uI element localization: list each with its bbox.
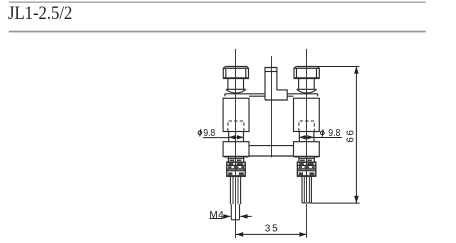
nut stack right — [295, 157, 319, 177]
title text JL1-2.5/2 — [8, 4, 72, 25]
body tube right (upper box) — [294, 98, 320, 131]
neck right — [299, 132, 314, 142]
clamp plate top — [225, 93, 318, 95]
body tube left (upper box) — [223, 98, 249, 131]
bolt B1 shank — [228, 79, 244, 89]
hidden hole left (dashed) — [228, 121, 244, 132]
svg-text:35: 35 — [265, 224, 280, 235]
svg-text:9.8: 9.8 — [328, 128, 340, 139]
rule under title — [9, 31, 426, 33]
label phi9.8 right text — [321, 128, 341, 139]
svg-text:9.8: 9.8 — [203, 127, 215, 138]
svg-text:M4: M4 — [209, 210, 224, 221]
nut stack left — [224, 157, 248, 177]
dim M4 leader — [210, 214, 252, 219]
hidden hole right (dashed) — [299, 121, 314, 132]
clamp plate bottom (gap segments) — [249, 95, 294, 97]
bolt B2 shank — [299, 79, 315, 89]
centerline right bolt — [306, 49, 308, 238]
clamp plate edges — [225, 94, 318, 96]
mounting bracket (L-shape) — [265, 68, 287, 101]
bolt B2 washer arc — [297, 89, 317, 93]
bolt B1 washer arc — [226, 89, 246, 93]
top rule — [9, 1, 426, 3]
dim phi9.8 right — [299, 135, 342, 139]
bolt B2 head (right) — [294, 67, 319, 79]
label phi9.8 left text — [198, 127, 215, 138]
dim phi9.8 left — [203, 135, 244, 139]
neck left — [229, 132, 244, 142]
svg-text:66: 66 — [345, 128, 356, 142]
base bar — [249, 146, 294, 156]
lower box right — [294, 142, 320, 157]
stud left (M4) — [230, 177, 240, 220]
dim 35 bottom — [236, 232, 307, 237]
dim 66 vertical — [311, 66, 359, 203]
lower box left — [223, 142, 249, 157]
center axis line — [271, 56, 273, 157]
stud right — [302, 177, 311, 203]
centerline left bolt — [235, 49, 237, 238]
bolt B1 head (left) — [223, 67, 248, 79]
